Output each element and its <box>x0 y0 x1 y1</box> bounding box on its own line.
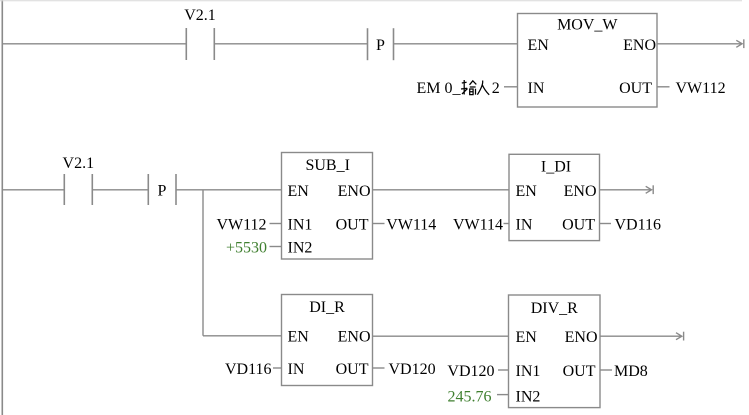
svg-text:V2.1: V2.1 <box>63 155 95 172</box>
wire I_DI ENO out <box>600 189 651 191</box>
svg-text:ENO: ENO <box>564 183 597 200</box>
I_DI OUT stub <box>600 223 612 225</box>
label VD116 (I_DI OUT operand) <box>615 217 662 234</box>
label 245.76 (DIV_R IN2 operand) <box>448 389 509 406</box>
svg-text:IN1: IN1 <box>516 363 541 380</box>
svg-text:P: P <box>158 182 167 199</box>
wire P to SUB_I EN <box>176 189 282 191</box>
svg-text:EN: EN <box>528 37 550 54</box>
svg-text:P: P <box>376 37 385 54</box>
svg-text:ENO: ENO <box>338 183 371 200</box>
svg-text:IN: IN <box>516 217 533 234</box>
wire SUB_I ENO to I_DI EN <box>373 189 510 191</box>
svg-text:2: 2 <box>492 80 500 97</box>
svg-text:OUT: OUT <box>563 363 596 380</box>
box DIV_R <box>509 295 601 408</box>
svg-text:ENO: ENO <box>565 329 598 346</box>
svg-text:VW112: VW112 <box>216 217 266 234</box>
wire branch to DI_R EN <box>203 335 282 337</box>
branch vertical wire down to DI_R <box>202 190 204 336</box>
DIV_R OUT stub <box>600 369 612 371</box>
box SUB_I <box>282 153 373 260</box>
contact V2.1 (rung 2) <box>63 155 95 205</box>
svg-text:IN2: IN2 <box>288 240 313 257</box>
wire DI_R ENO to DIV_R EN <box>373 335 509 337</box>
glyph 入 <box>477 81 489 95</box>
svg-text:I_DI: I_DI <box>541 159 571 176</box>
svg-text:DIV_R: DIV_R <box>531 300 578 317</box>
label MD8 (DIV_R OUT operand) <box>614 363 648 380</box>
svg-text:VW114: VW114 <box>453 217 503 234</box>
svg-text:IN: IN <box>288 361 305 378</box>
svg-text:ENO: ENO <box>623 37 656 54</box>
label EM 0_输入2 (MOV_W IN operand) <box>417 80 518 97</box>
svg-text:SUB_I: SUB_I <box>305 157 349 174</box>
MOV_W OUT stub <box>657 86 670 88</box>
svg-text:+5530: +5530 <box>226 240 267 257</box>
svg-text:EN: EN <box>288 183 310 200</box>
svg-text:OUT: OUT <box>619 80 652 97</box>
svg-text:IN1: IN1 <box>288 217 313 234</box>
svg-text:245.76: 245.76 <box>448 389 492 406</box>
svg-text:VD120: VD120 <box>389 361 436 378</box>
continuation arrow rung2 <box>646 185 654 194</box>
wire P to MOV_W EN <box>394 43 518 45</box>
svg-text:IN2: IN2 <box>516 389 541 406</box>
svg-text:DI_R: DI_R <box>309 299 345 316</box>
contact V2.1 (rung 1) <box>184 7 216 60</box>
wire between contacts rung2 <box>92 189 148 191</box>
label VD116 (DI_R IN operand) <box>225 361 282 378</box>
svg-text:EN: EN <box>516 183 538 200</box>
continuation arrow rung1 <box>736 39 744 48</box>
top separator line <box>0 0 742 2</box>
wire MOV_W ENO out <box>657 43 742 45</box>
svg-text:EN: EN <box>288 328 310 345</box>
box MOV_W <box>518 14 658 108</box>
svg-text:MD8: MD8 <box>614 363 648 380</box>
DI_R OUT stub <box>373 367 385 369</box>
label VD120 (DI_R OUT operand) <box>389 361 436 378</box>
svg-text:VD120: VD120 <box>447 363 494 380</box>
svg-text:EM 0_: EM 0_ <box>417 80 462 97</box>
box I_DI <box>509 154 600 240</box>
contact P positive edge (rung 2) <box>148 174 176 205</box>
wire DIV_R ENO out <box>600 335 682 337</box>
label +5530 (SUB_I IN2 operand) <box>226 240 282 257</box>
SUB_I OUT stub <box>373 223 385 225</box>
svg-text:EN: EN <box>516 329 538 346</box>
svg-text:VW112: VW112 <box>676 80 726 97</box>
svg-text:OUT: OUT <box>336 217 369 234</box>
svg-text:IN: IN <box>528 80 545 97</box>
continuation arrow rung2 branch <box>676 332 684 341</box>
svg-text:V2.1: V2.1 <box>184 7 216 24</box>
glyph 输 <box>461 80 476 95</box>
svg-text:VD116: VD116 <box>225 361 272 378</box>
svg-text:OUT: OUT <box>562 217 595 234</box>
svg-text:OUT: OUT <box>336 361 369 378</box>
svg-text:MOV_W: MOV_W <box>557 17 618 34</box>
box DI_R <box>282 295 373 386</box>
svg-text:VD116: VD116 <box>615 217 662 234</box>
label VW112 (MOV_W OUT operand) <box>676 80 726 97</box>
wire rung1 rail to contact <box>3 43 186 45</box>
contact P positive edge (rung 1) <box>368 28 394 60</box>
label VW114 (I_DI IN operand) <box>453 217 509 234</box>
svg-text:VW114: VW114 <box>386 217 436 234</box>
svg-text:ENO: ENO <box>338 328 371 345</box>
label VW114 (SUB_I OUT operand) <box>386 217 436 234</box>
label VD120 (DIV_R IN1 operand) <box>447 363 508 380</box>
wire rung2 rail to contact <box>3 189 64 191</box>
wire between contacts rung1 <box>214 43 367 45</box>
left power rail <box>1 0 3 415</box>
label VW112 (SUB_I IN1 operand) <box>216 217 281 234</box>
